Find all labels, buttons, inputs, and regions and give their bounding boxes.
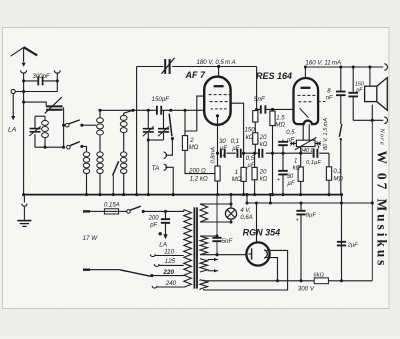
svg-text:µF: µF — [220, 146, 227, 152]
ground symbol — [17, 220, 31, 222]
coil L1 (antenna tank) — [35, 116, 45, 147]
capacitor 0,5uF (column) — [282, 140, 284, 142]
wire: cathode column 1kOhm — [300, 147, 302, 154]
svg-text:300 V: 300 V — [298, 286, 315, 293]
mains line 2 — [83, 269, 90, 271]
transformer secondary S4 (rectifier filament) — [200, 280, 208, 289]
capacitor 5nF (RF bypass) — [212, 238, 221, 241]
RGN354 filament electrode — [251, 248, 253, 259]
capacitor 200pF (mains) — [165, 211, 167, 218]
transformer secondary S1 (pilot lamp) — [200, 204, 208, 222]
switch (tone, series with 8nF) — [340, 95, 342, 124]
earth terminal (open circle) — [11, 89, 15, 93]
filament connection marks — [290, 141, 295, 145]
tube AF7 (envelope) — [204, 77, 230, 125]
svg-text:300pF: 300pF — [33, 74, 50, 80]
tap 125 — [154, 264, 159, 266]
svg-text:2µF: 2µF — [347, 242, 359, 248]
svg-text:0.15A: 0.15A — [104, 203, 120, 209]
terminal TA hook lower — [164, 164, 167, 170]
mains fuse line — [83, 210, 90, 212]
svg-text:pF: pF — [149, 222, 157, 228]
wire: AF7 cathode column — [217, 116, 219, 166]
wire: trimmer bottoms — [148, 139, 163, 141]
AF7 internal electrodes — [214, 85, 224, 87]
capacitor 2uF — [337, 242, 346, 246]
voltage selector lever — [119, 270, 150, 277]
svg-text:µF: µF — [232, 146, 239, 152]
svg-text:0,1: 0,1 — [231, 139, 239, 145]
svg-text:6kΩ: 6kΩ — [313, 272, 324, 278]
svg-text:MΩ: MΩ — [232, 177, 242, 183]
wire: left end of S4 lines — [203, 280, 205, 290]
wire: 8nF/tone column below bus to HT- — [341, 195, 343, 281]
svg-text:0,5: 0,5 — [246, 156, 255, 162]
pilot lamp 4V 0.6A — [230, 195, 232, 208]
svg-text:0,6A: 0,6A — [240, 215, 252, 221]
anode wire AF7 to 1MOhm column — [231, 103, 244, 153]
wire: TA lower to bus — [165, 167, 173, 194]
chassis bus (main horizontal) — [24, 194, 341, 196]
switch lever (band switch at bus) — [112, 176, 114, 195]
ground connector plug — [23, 195, 25, 203]
wire: 2MOhm bottom to bias resistor tap — [185, 150, 215, 173]
coil L4 oscillator/grid winding 2 — [123, 133, 125, 195]
RGN354 anode electrode — [264, 250, 267, 258]
loudspeaker — [369, 67, 371, 86]
svg-text:125: 125 — [165, 258, 176, 265]
wire: trimmer node to chassis bus — [147, 140, 149, 195]
capacitor 8uF (filter) — [300, 203, 302, 210]
svg-text:20: 20 — [259, 135, 267, 141]
tap 220 — [152, 275, 184, 277]
wire: switch S1a to grid coil — [82, 124, 96, 126]
wire: tank bottom — [35, 146, 65, 148]
switch S1a (wave range, upper contact) — [65, 123, 69, 127]
svg-text:200 Ω: 200 Ω — [188, 168, 206, 175]
trimmer capacitor T1 — [147, 110, 149, 140]
speaker terminal hook top — [384, 64, 387, 70]
resistor 1 kOhm — [298, 167, 303, 181]
svg-text:240: 240 — [165, 280, 177, 287]
coil L2a (coupling winding) — [83, 152, 89, 157]
wire: antenna column down to chassis bus — [23, 73, 25, 194]
svg-text:220: 220 — [162, 269, 174, 276]
svg-text:4 V,: 4 V, — [240, 208, 250, 214]
svg-text:80 V, 1,5 mA: 80 V, 1,5 mA — [323, 118, 329, 150]
wire: W1 down to anode node — [256, 67, 258, 110]
antenna socket terminal — [21, 70, 27, 73]
tap 110 — [150, 254, 155, 256]
svg-text:0,5: 0,5 — [286, 130, 295, 136]
svg-text:150pF: 150pF — [152, 96, 171, 103]
resistor 1 MOhm — [243, 153, 245, 167]
AF7 top cap stub — [218, 67, 220, 78]
RES164 internal electrodes — [301, 87, 311, 89]
svg-text:+: + — [277, 177, 280, 183]
svg-text:kΩ: kΩ — [260, 176, 268, 182]
wire: rectifier anode loop — [204, 250, 288, 290]
svg-text:0,1µF: 0,1µF — [306, 160, 321, 166]
capacitor 300pF (antenna series) — [24, 80, 58, 82]
svg-text:1: 1 — [235, 170, 238, 176]
svg-text:1: 1 — [294, 158, 297, 164]
speaker terminal hook bottom — [384, 117, 387, 123]
wire: antenna lead-in — [23, 48, 25, 63]
svg-text:+: + — [296, 217, 299, 223]
capacitor 150pF (across speaker) — [352, 67, 354, 92]
svg-text:2: 2 — [189, 138, 194, 144]
svg-text:30: 30 — [219, 139, 226, 145]
tube RGN354 (rectifier) — [246, 242, 269, 265]
wire: W3 decoupling line — [218, 152, 330, 154]
fuse 0.15A — [104, 209, 118, 214]
mains switch — [127, 210, 131, 214]
capacitor 30uF electrolytic (cathode bypass) — [278, 171, 288, 175]
resistor 150 kOhm — [256, 109, 258, 110]
wire: tuning cap to wave switch column — [63, 108, 64, 147]
node LA arrow (left) — [12, 94, 14, 116]
switch S1b (wave range, lower contact) — [67, 145, 71, 149]
wire: bus1 to bus2 links — [247, 195, 270, 203]
wire: W1 grid/anode top line 180V — [137, 66, 257, 68]
variable capacitor (grid series, top) — [165, 59, 169, 74]
RES164 filament pins — [303, 124, 309, 140]
wire: TA upper to band switch lever — [165, 139, 172, 156]
svg-text:MΩ: MΩ — [189, 145, 199, 151]
wire: second socket column — [56, 73, 58, 91]
wire: rectifier to HT- line — [267, 258, 278, 281]
svg-text:nF: nF — [326, 95, 333, 101]
AF7 grid-2 wire — [185, 96, 204, 131]
svg-text:180 V, 0,5 m A: 180 V, 0,5 m A — [197, 59, 236, 66]
svg-text:8µF: 8µF — [306, 213, 317, 219]
capacitor 8nF (tone) — [340, 67, 342, 91]
resistor 1,5 MOhm (grid leak RES164) — [272, 109, 274, 111]
wire: HT- line (300V) — [204, 280, 373, 282]
svg-text:5nF: 5nF — [254, 96, 266, 103]
wire: grid line to RES164 — [273, 108, 294, 110]
capacitor 0,1uF (on W3 right) — [314, 149, 318, 158]
svg-text:LA: LA — [8, 126, 17, 133]
wire: grid bus W2a (coils to AF7 grid) — [100, 109, 204, 111]
transformer secondary S2 (HV) — [200, 236, 208, 255]
antenna socket 2 — [54, 70, 60, 73]
tube RES164 (envelope with stem) — [293, 78, 318, 124]
svg-text:20: 20 — [259, 169, 267, 175]
resistor 2 MOhm (grid leak) — [184, 110, 186, 135]
tap 240 — [152, 286, 157, 288]
wire: earth terminal to antenna column — [15, 91, 57, 93]
svg-text:30: 30 — [287, 174, 294, 180]
wire: to tuning capacitor — [24, 102, 47, 106]
svg-text:Nora: Nora — [379, 128, 386, 146]
capacitor 0,5uF (on W3) — [259, 149, 262, 158]
capacitor 30uF — [221, 149, 225, 158]
svg-text:RES 164: RES 164 — [256, 71, 292, 81]
coil L3 grid winding (upper) + L3a (lower) — [99, 110, 101, 194]
switch lever (trimmer select) — [169, 114, 172, 137]
svg-text:RGN 354: RGN 354 — [243, 227, 281, 237]
svg-text:17 W: 17 W — [83, 235, 99, 242]
capacitor 150pF (series, grid circuit) — [157, 106, 161, 115]
svg-text:W 07 Musikus: W 07 Musikus — [375, 151, 390, 269]
resistor 200/1200 Ohm (cathode bias) — [215, 166, 220, 181]
trimmer capacitor T2 — [163, 110, 165, 140]
svg-text:160 V, 11 mA: 160 V, 11 mA — [306, 60, 342, 67]
node LA (mains antenna) — [159, 232, 162, 235]
wire: coil L4 top to grid bus — [124, 110, 133, 115]
svg-text:MΩ: MΩ — [275, 123, 285, 129]
svg-text:1,5: 1,5 — [276, 115, 285, 121]
svg-text:+: + — [222, 153, 225, 159]
resistor 20 kOhm (upper) — [253, 133, 258, 144]
wire: speaker lower line — [353, 119, 383, 121]
svg-text:110: 110 — [164, 248, 174, 255]
svg-text:0,8mA: 0,8mA — [210, 147, 216, 164]
wire: bus through 5nF column — [216, 195, 218, 255]
antenna — [11, 48, 24, 57]
capacitor 0,1uF — [237, 149, 240, 158]
capacitor 5nF (coupling) — [257, 108, 273, 110]
node N1: 180V / 5nF / 150k — [255, 108, 258, 111]
resistor 0,1 MOhm — [328, 153, 330, 167]
rheostat 940 Ohm (filament) with arrow — [296, 140, 315, 146]
wire: W4 anode 160V line — [305, 66, 383, 68]
wire: right edge column — [371, 120, 373, 280]
svg-text:5nF: 5nF — [222, 238, 234, 245]
svg-text:TA: TA — [152, 165, 160, 172]
svg-text:1,2 kΩ: 1,2 kΩ — [190, 176, 208, 183]
resistor 20 kOhm (lower) — [254, 153, 256, 167]
svg-text:200: 200 — [148, 215, 160, 221]
RES164 top cap stub — [304, 67, 306, 79]
wire: right filament mark down — [318, 146, 320, 149]
svg-text:pF: pF — [355, 87, 363, 93]
transformer secondary S3 (filament) — [200, 259, 208, 272]
transformer primary winding — [183, 210, 185, 212]
variable capacitor C-tune (main tuning) — [46, 106, 62, 109]
svg-text:kΩ: kΩ — [260, 142, 268, 148]
wire: switch S1b to coupling coil — [82, 146, 87, 151]
svg-text:kΩ: kΩ — [293, 165, 301, 171]
svg-text:µF: µF — [287, 181, 294, 187]
trimmer capacitor (antenna tank) — [34, 116, 36, 147]
wire: rectifier cathode riser — [256, 203, 258, 242]
svg-text:AF 7: AF 7 — [185, 70, 206, 80]
wire: HT+ bus 2 — [247, 202, 372, 204]
wire: W1 column down to chassis bus — [136, 67, 138, 195]
terminal TA hook upper — [164, 152, 167, 158]
transformer core — [193, 207, 195, 288]
resistor 6kOhm — [314, 278, 328, 284]
svg-text:MΩ: MΩ — [333, 176, 343, 182]
